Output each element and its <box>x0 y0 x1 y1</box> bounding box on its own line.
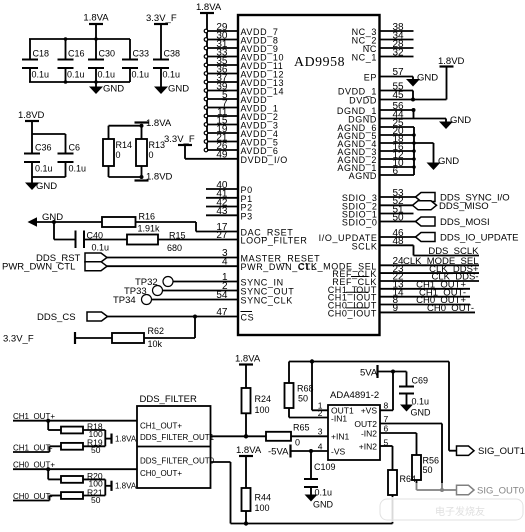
power 3.3V_F (R62) <box>3 332 75 345</box>
pin 15 AVDD_3 <box>204 115 278 130</box>
svg-text:0.1u: 0.1u <box>92 243 110 253</box>
pin 6 AGND <box>349 166 414 181</box>
svg-text:DDS_FILTER: DDS_FILTER <box>140 394 198 405</box>
pin 44 DGND <box>348 109 446 124</box>
port DDS_MISO <box>413 201 489 212</box>
svg-text:GND: GND <box>450 115 471 126</box>
pin 5 AVDD <box>204 90 267 105</box>
pin 31 AVDD_9 <box>204 39 278 54</box>
svg-text:6: 6 <box>393 166 399 177</box>
wire AGND bus <box>412 127 416 175</box>
svg-text:1.8VA: 1.8VA <box>115 482 137 491</box>
pin 50 SDIO_0 <box>342 212 416 227</box>
power 1.8VD (DVDD) <box>438 56 465 100</box>
power 3.3V_F (C38) <box>146 13 177 60</box>
resistor R13 0 <box>136 126 165 177</box>
pin 35 AVDD_11 <box>204 56 283 71</box>
resistor R15 680 <box>127 231 186 254</box>
capacitor C30 0.1u <box>88 39 115 82</box>
pin 33 AVDD_10 <box>204 47 284 62</box>
pin 37 AVDD_13 <box>204 73 284 88</box>
pin 54 SYNC_CLK <box>152 290 293 306</box>
pin 16 AGND_3 <box>337 142 414 157</box>
resistor R64 <box>388 470 416 524</box>
svg-text:7: 7 <box>384 414 389 424</box>
resistor R44 100 <box>242 488 272 524</box>
block DDS_FILTER <box>137 394 215 488</box>
IC U1 AD9958 <box>238 15 380 335</box>
svg-text:0: 0 <box>116 150 121 160</box>
wire C36 top rail <box>32 133 66 135</box>
svg-text:DVDD_I/O: DVDD_I/O <box>241 155 288 165</box>
pin 17 DAC_RSET <box>216 222 293 238</box>
port DDS_RST <box>36 253 107 264</box>
svg-text:50: 50 <box>298 394 308 404</box>
wire feedback OUT1 top <box>289 359 449 363</box>
resistor R18 100 <box>48 421 105 439</box>
svg-text:57: 57 <box>393 67 405 78</box>
net CH1_OUT+ <box>416 280 466 291</box>
wire DDS_FILTER_OUT0 output <box>211 462 231 524</box>
svg-text:GND: GND <box>103 84 124 95</box>
wire 3.3V_F to pin 49 <box>185 158 238 160</box>
power 1.8VA (R18/R19) <box>105 430 137 446</box>
net CH0_OUT+ (filter input) <box>13 461 137 472</box>
svg-text:50: 50 <box>393 212 405 223</box>
wire C40 to R15 <box>84 239 127 241</box>
svg-text:SCLK: SCLK <box>352 241 378 251</box>
svg-text:3.3V_F: 3.3V_F <box>146 13 177 24</box>
svg-text:100: 100 <box>255 405 270 415</box>
svg-text:0.1u: 0.1u <box>98 70 116 80</box>
pin 10 AGND_1 <box>337 158 414 173</box>
net CH0_OUT+ <box>416 295 466 306</box>
net CH1_OUT- <box>13 444 53 453</box>
svg-text:AD9958: AD9958 <box>294 54 345 69</box>
pin 7 OUT2 <box>380 414 442 490</box>
pin 55 DVDD_1 <box>338 81 415 101</box>
svg-text:C69: C69 <box>412 376 429 386</box>
pin 18 AGND_4 <box>337 134 414 149</box>
svg-text:27: 27 <box>216 230 228 241</box>
ground (decoupling rail) <box>89 82 124 95</box>
svg-text:0.1u: 0.1u <box>69 164 87 174</box>
svg-text:9: 9 <box>393 303 399 314</box>
svg-text:45: 45 <box>393 90 405 101</box>
svg-text:2: 2 <box>318 408 323 418</box>
svg-text:1.8VD: 1.8VD <box>438 56 465 67</box>
svg-text:50: 50 <box>91 495 101 505</box>
svg-text:100: 100 <box>255 503 270 513</box>
svg-text:R14: R14 <box>116 140 133 150</box>
pin 48 SCLK <box>352 236 479 255</box>
svg-text:0.1u: 0.1u <box>315 488 333 498</box>
svg-text:+IN1: +IN1 <box>331 432 349 442</box>
svg-text:0.1u: 0.1u <box>412 397 430 407</box>
pin 4 -VS <box>291 441 329 453</box>
svg-text:R13: R13 <box>149 140 166 150</box>
port DDS_CS <box>37 312 108 323</box>
svg-text:0.1u: 0.1u <box>132 70 150 80</box>
pin 5 +IN2 <box>380 437 393 470</box>
power 1.8VD (R13 bottom) <box>135 172 173 183</box>
port DDS_IO_UPDATE <box>416 233 519 244</box>
resistor R19 50 <box>50 438 106 456</box>
ground (AGND) <box>427 156 460 170</box>
svg-text:R65: R65 <box>293 423 310 433</box>
wire decoupling bottom rail <box>29 80 130 84</box>
svg-text:43: 43 <box>216 206 228 217</box>
svg-text:0: 0 <box>149 150 154 160</box>
svg-text:SIG_OUT1: SIG_OUT1 <box>478 446 525 457</box>
svg-text:CS: CS <box>241 313 255 323</box>
svg-text:P3: P3 <box>241 211 253 221</box>
svg-text:1.8VA: 1.8VA <box>196 2 222 13</box>
ground (EP) <box>406 73 438 87</box>
wire R15 to pin 27 <box>158 239 238 241</box>
pin 11 AVDD_2 <box>204 107 278 122</box>
power -5VA <box>268 445 291 458</box>
resistor R56 50 <box>412 455 439 490</box>
svg-text:DDS_FILTER_OUT1: DDS_FILTER_OUT1 <box>140 433 215 442</box>
pin 1 SYNC_IN <box>173 272 284 288</box>
net CH1_OUT- <box>419 287 466 298</box>
svg-text:EP: EP <box>364 73 377 83</box>
pin 40 P0 <box>206 180 253 195</box>
pin 30 AVDD_8 <box>204 30 278 45</box>
capacitor C36 0.1u <box>24 134 53 177</box>
svg-text:GND: GND <box>168 84 189 95</box>
svg-text:GND: GND <box>36 181 57 192</box>
svg-text:GND: GND <box>411 408 432 418</box>
svg-text:54: 54 <box>216 290 228 301</box>
svg-text:32: 32 <box>393 47 405 58</box>
port SIG_OUT1 <box>457 446 525 457</box>
svg-text:-VS: -VS <box>331 447 346 457</box>
pin 12 AGND_2 <box>337 150 414 165</box>
svg-text:3: 3 <box>318 427 323 437</box>
capacitor C40 0.1u <box>54 222 109 253</box>
svg-text:DDS_CS: DDS_CS <box>37 312 76 323</box>
pin 38 NC_3 <box>352 22 414 37</box>
wire GND to R16 <box>37 220 102 224</box>
svg-text:3.3V_F: 3.3V_F <box>3 334 34 345</box>
svg-text:OUT2: OUT2 <box>354 419 377 429</box>
port PWR_DWN_CTL <box>2 262 107 273</box>
svg-text:SDIO_0: SDIO_0 <box>342 218 378 228</box>
power 1.8VA (R44) <box>236 445 262 488</box>
pin 7 AVDD_1 <box>204 98 278 113</box>
pin 39 AVDD_14 <box>204 81 284 96</box>
svg-text:47: 47 <box>216 307 228 318</box>
svg-text:1.8VA: 1.8VA <box>235 354 261 365</box>
svg-text:DVDD: DVDD <box>349 96 377 106</box>
pin 27 LOOP_FILTER <box>216 230 307 246</box>
svg-text:C18: C18 <box>33 49 50 59</box>
pin 49 DVDD_I/O <box>216 149 287 165</box>
svg-text:4: 4 <box>222 257 228 268</box>
power 1.8VA (R24) <box>235 354 261 389</box>
svg-text:1.8VA: 1.8VA <box>146 118 172 129</box>
wire DDS_FILTER_OUT1 to R65 <box>211 434 267 438</box>
svg-text:5: 5 <box>384 437 389 447</box>
power 1.8VA (decoupling rail) <box>83 13 109 40</box>
pin 51 SDIO_1 <box>342 204 414 219</box>
svg-text:1.91k: 1.91k <box>138 224 161 234</box>
svg-text:电子发烧友: 电子发烧友 <box>435 505 485 518</box>
pin 28 NC <box>363 39 414 54</box>
svg-text:R24: R24 <box>255 394 272 404</box>
svg-text:1.8VA: 1.8VA <box>236 445 262 456</box>
resistor R14 0 <box>103 126 132 177</box>
watermark overlay <box>375 483 525 522</box>
svg-text:-IN2: -IN2 <box>361 429 377 439</box>
testpoint TP33 <box>124 286 163 298</box>
pin 8 +VS <box>380 372 393 411</box>
svg-text:DDS_IO_UPDATE: DDS_IO_UPDATE <box>440 233 518 244</box>
wire R16 to pin 17 <box>136 222 239 232</box>
pin 56 DGND_1 <box>337 101 416 119</box>
svg-text:48: 48 <box>393 236 405 247</box>
svg-text:4: 4 <box>318 441 323 451</box>
svg-text:8: 8 <box>384 401 389 411</box>
svg-text:C30: C30 <box>99 49 116 59</box>
svg-text:5VA: 5VA <box>360 368 378 379</box>
svg-text:0.1u: 0.1u <box>35 164 53 174</box>
pin 42 P2 <box>206 197 253 212</box>
svg-text:R56: R56 <box>423 456 440 466</box>
svg-text:50: 50 <box>91 445 101 455</box>
resistor R24 100 <box>242 388 272 436</box>
svg-text:49: 49 <box>216 149 228 160</box>
net DDS_SCLK <box>428 246 479 257</box>
svg-text:C16: C16 <box>68 49 85 59</box>
wire C36 bottom rail <box>32 176 66 178</box>
capacitor C38 0.1u <box>153 49 180 83</box>
pin 6 -IN2 <box>380 423 417 455</box>
svg-text:50: 50 <box>423 465 433 475</box>
pin 26 AVDD_6 <box>204 141 278 156</box>
svg-text:680: 680 <box>167 243 182 253</box>
svg-text:10k: 10k <box>148 339 163 349</box>
svg-text:GND: GND <box>417 73 438 84</box>
svg-text:6: 6 <box>384 423 389 433</box>
pin 8 CH0_IOUT <box>328 295 470 310</box>
svg-text:C109: C109 <box>314 462 336 472</box>
svg-text:PWR_DWN_CTL: PWR_DWN_CTL <box>2 262 75 273</box>
pin 20 AGND_5 <box>337 126 414 141</box>
pin 2 -IN1 <box>289 408 328 418</box>
pin 47 CS <box>108 307 255 323</box>
capacitor C6 0.1u <box>58 134 87 177</box>
ground (C38) <box>154 82 189 95</box>
capacitor C69 0.1u <box>399 372 429 407</box>
power 1.8VD (C36 group) <box>18 110 45 134</box>
pin 34 NC_2 <box>352 30 414 45</box>
svg-text:1.8VA: 1.8VA <box>83 13 109 24</box>
svg-text:R62: R62 <box>148 326 165 336</box>
svg-text:0.1u: 0.1u <box>32 70 50 80</box>
pin 3 +IN1 <box>318 427 323 437</box>
capacitor C18 0.1u <box>22 39 49 82</box>
svg-text:DDS_FILTER_OUT0: DDS_FILTER_OUT0 <box>140 457 215 466</box>
pin 29 AVDD_7 <box>204 22 278 37</box>
pin 4 PWR_DWN_CTL <box>107 257 317 273</box>
pin 9 CH0_IOUT <box>328 303 475 318</box>
capacitor C33 0.1u <box>122 39 149 82</box>
svg-text:C6: C6 <box>69 143 81 153</box>
pin 1 OUT1 <box>312 362 328 411</box>
svg-text:-IN1: -IN1 <box>331 413 347 423</box>
ground (DAC_RSET, left arrow) <box>28 212 64 227</box>
pin 52 SDIO_2 <box>342 196 413 211</box>
svg-text:ADA4891-2: ADA4891-2 <box>330 390 379 401</box>
power 1.8VA (AVDD bus) <box>196 2 222 13</box>
net CLK_DDS- <box>432 272 479 283</box>
resistor R62 10k <box>75 317 195 350</box>
svg-text:+IN2: +IN2 <box>359 442 377 452</box>
pin 24 CLK_MODE_SEL <box>298 256 479 271</box>
wire AGND to ground <box>414 143 434 163</box>
svg-text:TP34: TP34 <box>113 295 136 306</box>
wire to SIG_OUT0 <box>417 488 457 492</box>
port DDS_SYNC_I/O <box>416 193 510 204</box>
resistor R68 50 <box>285 362 314 418</box>
pin 3 MASTER_RESET <box>107 248 320 264</box>
net CLK_MODE_SEL <box>403 256 479 267</box>
power 1.8VA (R13 top) <box>135 118 172 129</box>
wire filter out0 bottom rail <box>231 521 393 525</box>
svg-text:R68: R68 <box>297 384 314 394</box>
wire R65 to +IN1 <box>291 435 328 437</box>
pin 46 I/O_UPDATE <box>319 228 416 243</box>
testpoint TP32 <box>135 277 173 289</box>
svg-text:CH0_OUT-: CH0_OUT- <box>427 303 474 314</box>
svg-text:1.8VA: 1.8VA <box>115 435 137 444</box>
capacitor C109 0.1u <box>304 451 336 498</box>
svg-text:C33: C33 <box>133 49 150 59</box>
pin 41 P1 <box>206 189 253 204</box>
svg-text:-5VA: -5VA <box>268 447 289 458</box>
svg-text:CH0_OUT+: CH0_OUT+ <box>140 469 182 478</box>
svg-text:1.8VD: 1.8VD <box>146 172 173 183</box>
net CH0_OUT- <box>427 303 474 314</box>
port DDS_MOSI <box>416 217 490 228</box>
wire decoupling top rail <box>29 37 130 41</box>
svg-text:C38: C38 <box>164 49 181 59</box>
svg-text:CH1_OUT+: CH1_OUT+ <box>140 422 182 431</box>
svg-text:SYNC_CLK: SYNC_CLK <box>241 296 293 306</box>
pin 22 REF_CLK <box>332 272 479 287</box>
pin 13 CH1_IOUT <box>328 280 470 295</box>
svg-text:NC_1: NC_1 <box>352 53 377 63</box>
svg-text:LOOP_FILTER: LOOP_FILTER <box>241 236 308 246</box>
svg-text:+VS: +VS <box>361 406 378 416</box>
pin 21 AVDD_5 <box>204 132 278 147</box>
resistor R20 100 <box>48 469 105 488</box>
svg-text:1.8VD: 1.8VD <box>18 110 45 121</box>
pin 14 CH1_IOUT <box>328 287 470 302</box>
svg-text:R44: R44 <box>255 493 272 503</box>
svg-text:0.1u: 0.1u <box>67 70 85 80</box>
capacitor C16 0.1u <box>58 39 85 82</box>
pin 53 SDIO_3 <box>342 188 416 203</box>
power 1.8VA (R20/R21) <box>105 479 137 495</box>
svg-text:DDS_MOSI: DDS_MOSI <box>440 217 490 228</box>
wire R14-R13 bottom rail <box>109 175 144 179</box>
svg-text:AGND: AGND <box>349 171 377 181</box>
pin 19 AVDD_4 <box>204 124 278 139</box>
power 3.3V_F (DVDD_I/O) <box>164 134 195 159</box>
svg-text:C36: C36 <box>35 143 52 153</box>
svg-text:0: 0 <box>295 438 300 448</box>
ground (C36 group) <box>25 177 57 192</box>
pin 25 AGND_6 <box>337 118 414 133</box>
wire to SIG_OUT1 <box>449 362 457 451</box>
svg-text:GND: GND <box>313 500 334 510</box>
pin 45 DVDD <box>349 90 446 106</box>
resistor R21 50 <box>50 487 106 505</box>
ground (C69) <box>400 405 431 418</box>
wire R14-R13 top rail <box>109 124 144 128</box>
svg-text:CH0_IOUT: CH0_IOUT <box>328 308 377 318</box>
svg-text:0.1u: 0.1u <box>163 70 181 80</box>
svg-text:GND: GND <box>438 156 459 167</box>
net CLK_DDS+ <box>429 264 479 275</box>
svg-text:DDS_MISO: DDS_MISO <box>439 201 489 212</box>
svg-text:R16: R16 <box>139 212 156 222</box>
svg-text:3.3V_F: 3.3V_F <box>164 134 195 145</box>
pin 2 SYNC_OUT <box>163 281 295 297</box>
pin 23 REF_CLK <box>332 264 479 279</box>
pin 36 AVDD_12 <box>204 64 284 79</box>
wire AVDD power bus <box>206 13 208 150</box>
pin 43 P3 <box>206 206 253 221</box>
net CH1_OUT+ (filter input) <box>13 412 137 423</box>
testpoint TP34 <box>113 295 152 307</box>
ground (DGND) <box>439 115 471 129</box>
pin 32 NC_1 <box>352 47 414 62</box>
net CH0_OUT- <box>13 492 53 501</box>
power 5VA <box>360 365 407 379</box>
port SIG_OUT0 <box>457 485 525 496</box>
op-amp U2 ADA4891-2 <box>328 390 380 460</box>
pin 57 EP <box>364 67 413 83</box>
svg-text:R64: R64 <box>400 474 417 484</box>
resistor R16 1.91k <box>102 212 160 234</box>
ground (C109) <box>305 495 334 510</box>
resistor R65 0 <box>266 423 310 448</box>
